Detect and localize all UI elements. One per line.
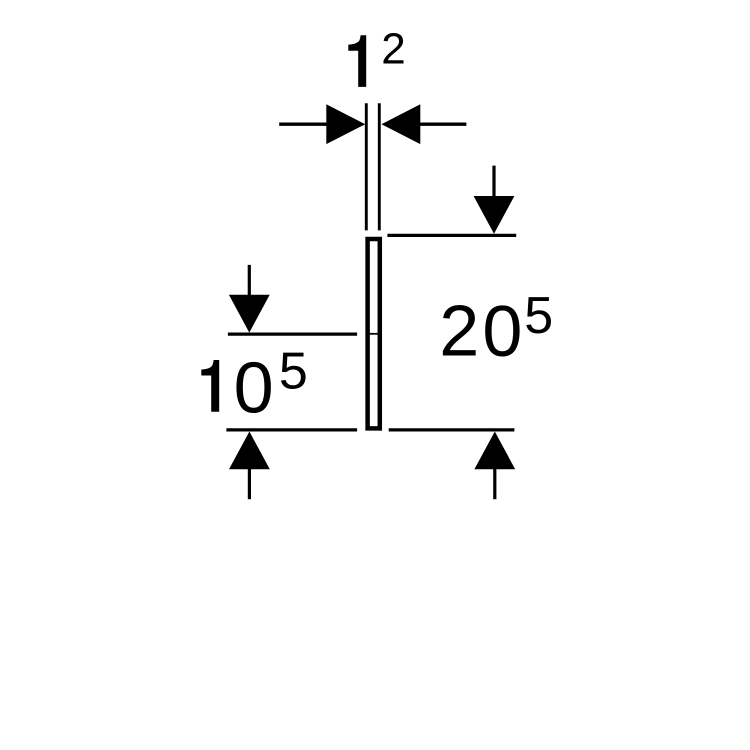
svg-text:2: 2 xyxy=(381,25,405,74)
bottom right up arrow stem xyxy=(493,466,496,499)
20.5 down arrowhead xyxy=(474,196,515,234)
bottom dimension line left segment xyxy=(226,428,357,431)
bottom dimension line right segment xyxy=(389,428,515,431)
bottom right up arrowhead xyxy=(474,432,515,470)
dimension digit 1 (custom glyph) xyxy=(348,35,366,87)
top arrowhead pointing right xyxy=(326,104,365,144)
bottom left up arrow stem xyxy=(248,466,251,499)
tick inside part at 10.5 dimension level xyxy=(368,333,379,335)
20.5 down arrow stem xyxy=(492,166,495,199)
profile part: thin vertical rectangle xyxy=(368,239,380,428)
top dimension line left segment xyxy=(279,122,329,125)
20.5 top dimension line xyxy=(387,234,516,237)
svg-text:5: 5 xyxy=(524,287,553,345)
svg-text:5: 5 xyxy=(279,343,308,401)
10.5 down arrowhead xyxy=(229,295,270,333)
10.5 dimension line xyxy=(228,333,357,336)
top dimension line right segment xyxy=(417,122,466,125)
dimension digit 1 of 10 (custom glyph) xyxy=(201,360,219,412)
bottom left up arrowhead xyxy=(229,432,270,470)
svg-text:2: 2 xyxy=(439,292,479,372)
top extension line right xyxy=(378,103,381,230)
svg-text:0: 0 xyxy=(482,292,522,372)
top arrowhead pointing left xyxy=(381,104,420,144)
top extension line left xyxy=(365,103,368,230)
svg-text:0: 0 xyxy=(234,349,274,429)
10.5 down arrow stem xyxy=(248,265,251,298)
